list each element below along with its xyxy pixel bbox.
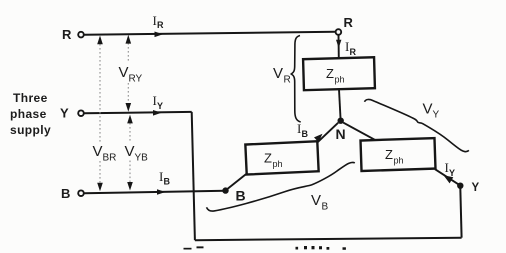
- svg-text:V: V: [119, 64, 129, 81]
- impedance Zph (R phase) U1: [303, 57, 375, 90]
- wire: Zph (B phase) to node N: [318, 123, 339, 143]
- current arrow I_Y (load): [444, 160, 456, 183]
- svg-text:Y: Y: [433, 110, 440, 121]
- current arrow I_Y (supply): [153, 93, 164, 116]
- svg-text:YB: YB: [135, 153, 149, 164]
- current arrow I_B (supply): [157, 169, 171, 195]
- text: Three phase supply: [10, 91, 51, 137]
- svg-text:Y: Y: [472, 182, 480, 194]
- wire: node N to Zph (Y phase): [343, 123, 376, 141]
- impedance Zph (B phase) U2: [245, 141, 318, 174]
- svg-text:Y: Y: [60, 106, 69, 121]
- impedance Zph (Y phase) U3: [361, 138, 436, 171]
- svg-text:B: B: [322, 202, 329, 213]
- svg-text:ph: ph: [394, 156, 404, 166]
- svg-text:phase: phase: [10, 107, 47, 121]
- svg-text:V: V: [423, 101, 433, 118]
- svg-text:Y: Y: [157, 101, 163, 111]
- svg-text:Three: Three: [13, 91, 48, 105]
- svg-text:B: B: [236, 188, 246, 204]
- svg-text:R: R: [350, 47, 357, 57]
- svg-text:Z: Z: [264, 151, 272, 166]
- voltage arrow V_RY: [119, 35, 143, 112]
- svg-text:R: R: [62, 27, 72, 42]
- wire: Zph (Y phase) to node Y: [435, 169, 458, 184]
- svg-text:supply: supply: [10, 123, 51, 137]
- svg-text:ph: ph: [273, 159, 283, 169]
- voltage arrow V_YB: [125, 115, 149, 191]
- wire: Zph to node N: [339, 90, 341, 119]
- svg-text:Z: Z: [326, 66, 334, 81]
- terminal R: [62, 27, 84, 42]
- svg-text:V: V: [125, 143, 135, 160]
- node B (load): [222, 187, 245, 203]
- svg-text:V: V: [93, 143, 103, 160]
- svg-text:B: B: [164, 177, 171, 187]
- current arrow I_R (supply): [153, 13, 165, 37]
- terminal Y: [60, 106, 84, 121]
- svg-text:ph: ph: [335, 75, 345, 85]
- node R (load): [336, 15, 354, 35]
- wire: right vertical up to node Y: [460, 188, 461, 238]
- svg-text:R: R: [284, 75, 291, 86]
- brace V_R: [273, 36, 301, 123]
- svg-text:V: V: [311, 192, 321, 209]
- wire: node B to Zph (B phase): [228, 174, 247, 189]
- svg-text:V: V: [273, 65, 283, 82]
- svg-text:Z: Z: [385, 147, 393, 162]
- svg-text:N: N: [336, 126, 346, 142]
- voltage arrow V_BR: [93, 36, 117, 192]
- caption remnants (cut text tops): [184, 246, 346, 250]
- current arrow I_B (load): [297, 121, 323, 142]
- current arrow I_R (load): [336, 39, 357, 57]
- wire: node R to Zph: [338, 35, 340, 59]
- wire: R phase line: [84, 32, 335, 35]
- svg-text:B: B: [302, 129, 309, 139]
- wire: Y phase line: [84, 112, 192, 113]
- svg-text:RY: RY: [129, 74, 143, 85]
- svg-text:R: R: [157, 20, 164, 30]
- node N: [336, 118, 346, 143]
- squiggle V_B: [207, 162, 355, 212]
- node Y (load): [457, 182, 479, 194]
- svg-text:BR: BR: [103, 153, 117, 164]
- wire: Y line down (left vertical): [192, 112, 195, 240]
- svg-text:Y: Y: [449, 168, 455, 178]
- wire: bottom return: [195, 238, 462, 241]
- wire: B phase line: [84, 191, 225, 193]
- squiggle V_Y: [365, 99, 469, 151]
- svg-text:B: B: [61, 186, 70, 201]
- terminal B: [61, 186, 84, 201]
- svg-text:R: R: [344, 15, 354, 30]
